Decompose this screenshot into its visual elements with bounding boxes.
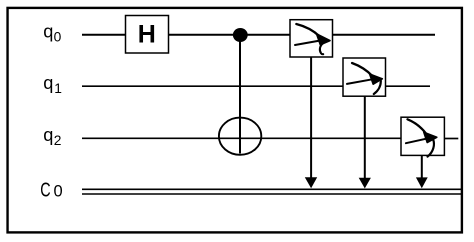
svg-text:0: 0 — [54, 183, 63, 201]
wire q0 segment 3 — [333, 34, 436, 36]
svg-text:q: q — [43, 21, 53, 41]
measurement gate M2 on q1 — [343, 58, 386, 96]
wire q0 segment 1 — [82, 34, 126, 36]
wire q1 segment 2 — [386, 85, 431, 87]
qubit label q0 — [43, 21, 61, 44]
svg-text:q: q — [43, 73, 53, 93]
wire q2 segment 1 — [82, 137, 401, 139]
CNOT vertical wire — [239, 35, 241, 154]
measurement gate M1 on q0 — [290, 20, 333, 57]
wire q1 segment 1 — [82, 85, 343, 87]
wire q0 segment 2 — [169, 34, 291, 36]
svg-text:1: 1 — [54, 81, 62, 96]
svg-text:q: q — [43, 125, 53, 145]
svg-text:C: C — [40, 178, 51, 201]
svg-text:2: 2 — [54, 133, 62, 148]
gate H on q0 — [126, 16, 169, 54]
measurement arrow 3 to C0 — [416, 155, 428, 188]
svg-text:0: 0 — [54, 29, 62, 44]
CNOT control dot on q0 — [233, 28, 248, 42]
wire q2 segment 2 — [445, 138, 459, 140]
svg-text:H: H — [138, 20, 156, 48]
measurement arrow 1 to C0 — [305, 57, 317, 188]
classical register label C0 — [40, 178, 62, 201]
qubit label q2 — [43, 125, 61, 148]
measurement gate M3 on q2 — [401, 117, 444, 156]
qubit label q1 — [43, 73, 62, 96]
measurement arrow 2 to C0 — [359, 96, 371, 188]
CNOT target on q2 — [219, 118, 261, 155]
classical wire C0 (double line) — [82, 189, 461, 194]
